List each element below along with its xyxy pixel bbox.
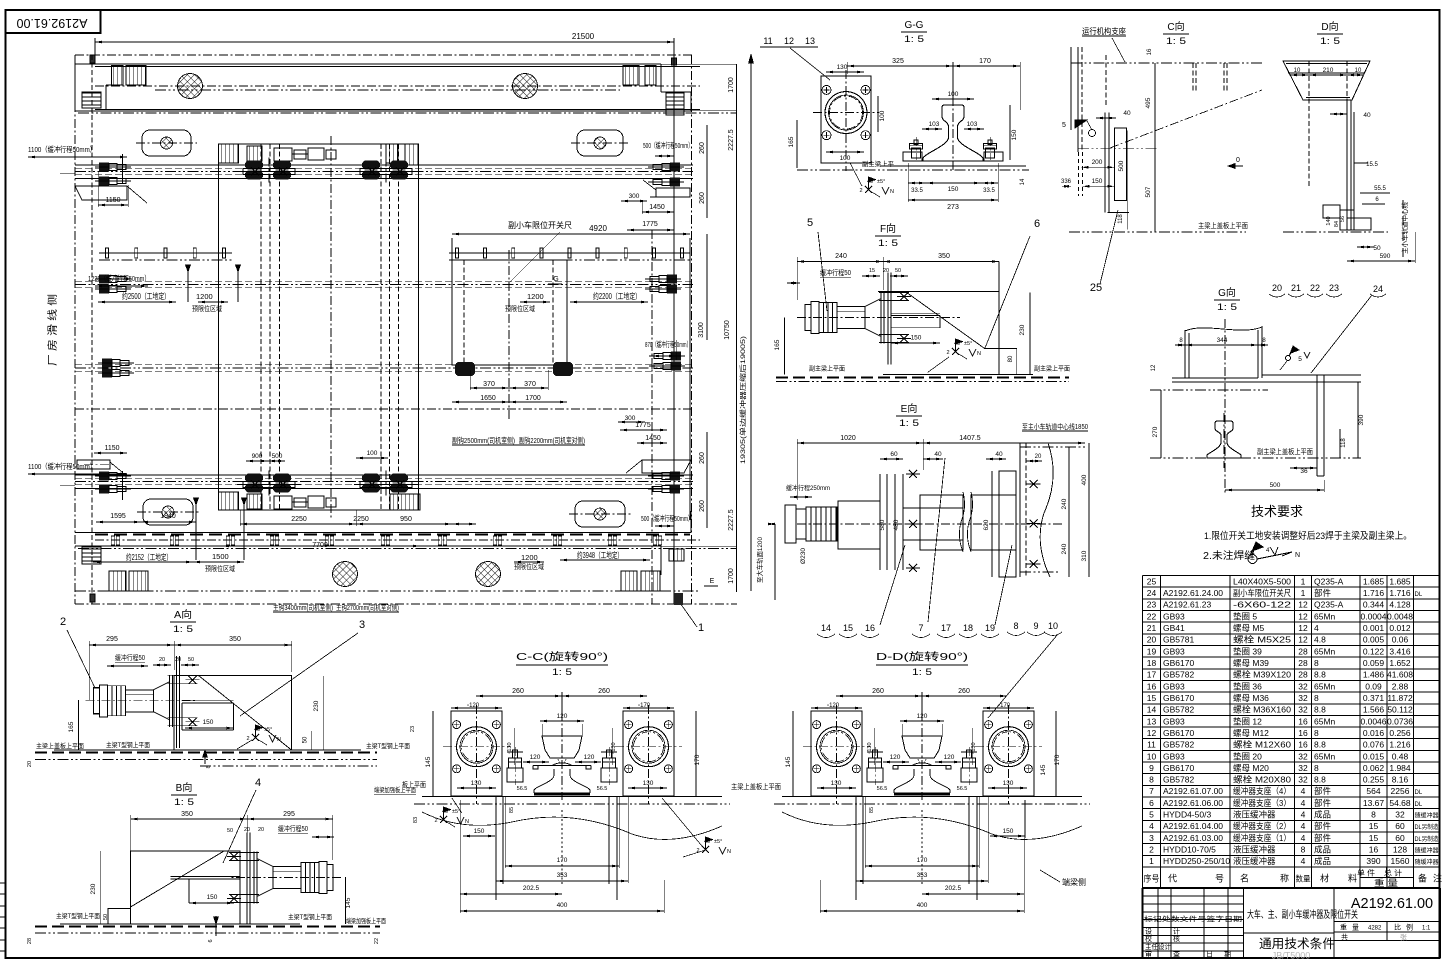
svg-text:A2192.61.00: A2192.61.00 [17, 16, 88, 30]
svg-text:33.5: 33.5 [983, 188, 995, 194]
svg-text:9: 9 [1149, 763, 1154, 773]
svg-text:1100（缓冲行程50mm）: 1100（缓冲行程50mm） [28, 461, 96, 471]
svg-text:60: 60 [890, 451, 898, 458]
svg-text:螺母 M12: 螺母 M12 [1233, 728, 1269, 738]
svg-text:50.112: 50.112 [1387, 705, 1413, 715]
svg-text:65Mn: 65Mn [1314, 716, 1336, 726]
svg-text:螺栓 M20X80: 螺栓 M20X80 [1233, 775, 1291, 785]
svg-text:G: G [553, 276, 558, 283]
svg-text:±5°: ±5° [452, 809, 460, 815]
svg-text:1150: 1150 [104, 445, 119, 452]
svg-text:170: 170 [917, 857, 928, 864]
svg-text:成品: 成品 [1314, 845, 1331, 855]
svg-text:370: 370 [524, 381, 536, 388]
svg-text:缓冲器支座（1）: 缓冲器支座（1） [1233, 833, 1291, 843]
svg-text:GB6170: GB6170 [1163, 728, 1194, 738]
svg-text:260: 260 [512, 688, 524, 695]
svg-text:预限位区域: 预限位区域 [192, 304, 222, 313]
svg-text:副钩2200mm(司机室对侧): 副钩2200mm(司机室对侧) [519, 435, 585, 445]
svg-text:202.5: 202.5 [523, 885, 540, 892]
svg-text:垫圈 20: 垫圈 20 [1233, 751, 1262, 761]
svg-text:缓冲器支座（2）: 缓冲器支座（2） [1233, 821, 1291, 831]
svg-text:0.059: 0.059 [1363, 658, 1385, 668]
svg-text:螺母 M5: 螺母 M5 [1233, 623, 1264, 633]
svg-text:2227.5: 2227.5 [728, 129, 735, 151]
svg-text:1: 1 [1301, 588, 1306, 598]
svg-text:100: 100 [840, 155, 851, 162]
svg-text:128: 128 [1393, 845, 1407, 855]
svg-text:273: 273 [947, 204, 959, 211]
svg-text:0.371: 0.371 [1363, 693, 1385, 703]
svg-text:18: 18 [963, 623, 973, 633]
svg-text:170: 170 [979, 58, 991, 65]
svg-text:8.8: 8.8 [1314, 740, 1326, 750]
svg-text:20: 20 [159, 657, 165, 663]
svg-text:1200: 1200 [196, 292, 213, 301]
svg-text:L40X40X5-500: L40X40X5-500 [1233, 576, 1291, 586]
svg-text:预限位区域: 预限位区域 [514, 562, 544, 571]
svg-text:12: 12 [784, 36, 794, 46]
svg-text:20: 20 [175, 657, 181, 663]
svg-text:150: 150 [207, 894, 218, 901]
svg-text:G-G: G-G [905, 20, 924, 31]
svg-text:17: 17 [941, 623, 951, 633]
svg-text:0.0048: 0.0048 [1387, 611, 1413, 621]
svg-text:500（缓冲行程50mm）: 500（缓冲行程50mm） [643, 140, 693, 150]
svg-text:预限位区域: 预限位区域 [205, 564, 235, 573]
svg-text:40: 40 [995, 451, 1003, 458]
svg-text:50: 50 [895, 268, 901, 274]
svg-text:主梁上盖板上平面: 主梁上盖板上平面 [731, 782, 781, 791]
svg-text:1: 5: 1: 5 [552, 667, 572, 677]
svg-text:353: 353 [917, 872, 928, 879]
svg-text:查: 查 [1173, 950, 1180, 959]
svg-text:主梁上盖板上平面: 主梁上盖板上平面 [36, 741, 84, 750]
svg-text:N: N [277, 737, 281, 743]
svg-text:118: 118 [1341, 438, 1347, 448]
svg-text:0.06: 0.06 [1392, 635, 1409, 645]
svg-text:32: 32 [1298, 681, 1308, 691]
svg-text:145: 145 [785, 756, 792, 767]
svg-text:量: 量 [1352, 924, 1359, 932]
svg-text:0.09: 0.09 [1365, 681, 1382, 691]
svg-text:80: 80 [1008, 355, 1014, 362]
svg-text:11: 11 [1147, 740, 1156, 750]
svg-text:DL: DL [1415, 802, 1423, 808]
svg-text:5: 5 [807, 217, 813, 229]
svg-text:7: 7 [918, 623, 923, 633]
svg-text:A2192.61.00: A2192.61.00 [1351, 896, 1433, 912]
svg-text:螺栓 M36X160: 螺栓 M36X160 [1233, 705, 1291, 715]
svg-text:部件: 部件 [1314, 833, 1332, 843]
svg-text:主小车轨道中心线: 主小车轨道中心线 [1400, 202, 1409, 255]
svg-text:200: 200 [1092, 159, 1103, 166]
svg-text:6: 6 [1149, 798, 1154, 808]
svg-text:A2192.61.03.00: A2192.61.03.00 [1163, 833, 1223, 843]
svg-text:16: 16 [865, 623, 875, 633]
svg-text:2: 2 [434, 818, 437, 824]
svg-text:85: 85 [869, 807, 875, 813]
svg-text:260: 260 [699, 452, 706, 464]
svg-text:5: 5 [1298, 356, 1302, 363]
svg-text:32: 32 [1298, 693, 1308, 703]
svg-text:-6X60-122: -6X60-122 [1233, 600, 1291, 610]
svg-text:1700: 1700 [728, 77, 735, 93]
svg-text:8: 8 [1314, 763, 1319, 773]
svg-text:技术要求: 技术要求 [1251, 504, 1303, 519]
svg-text:E: E [710, 578, 715, 585]
svg-text:7700: 7700 [312, 542, 328, 549]
svg-text:202.5: 202.5 [945, 885, 962, 892]
svg-text:4: 4 [255, 777, 261, 789]
svg-text:日: 日 [1206, 951, 1213, 959]
svg-text:54.68: 54.68 [1389, 798, 1411, 808]
svg-text:325: 325 [892, 58, 904, 65]
svg-text:HYDD10-70/5: HYDD10-70/5 [1163, 845, 1216, 855]
svg-text:副小车限位开关尺: 副小车限位开关尺 [1233, 588, 1291, 598]
svg-text:名: 名 [1240, 873, 1249, 884]
svg-text:590: 590 [1380, 253, 1391, 260]
svg-text:50: 50 [227, 828, 233, 834]
svg-text:0: 0 [1236, 157, 1240, 164]
svg-text:8: 8 [1314, 658, 1319, 668]
svg-text:8: 8 [1371, 810, 1376, 820]
svg-text:500: 500 [272, 453, 283, 460]
svg-text:1.限位开关工地安装调整好后23焊于主梁及副主梁上。: 1.限位开关工地安装调整好后23焊于主梁及副主梁上。 [1204, 530, 1412, 542]
svg-text:副钩2500mm(司机室侧): 副钩2500mm(司机室侧) [452, 435, 515, 445]
svg-text:6: 6 [1034, 218, 1040, 230]
svg-text:预限位区域: 预限位区域 [505, 304, 535, 313]
svg-text:260: 260 [872, 688, 884, 695]
svg-text:56.5: 56.5 [877, 786, 888, 792]
svg-text:240: 240 [835, 253, 847, 260]
svg-text:310: 310 [1081, 550, 1088, 561]
svg-text:13.67: 13.67 [1363, 798, 1385, 808]
svg-text:材: 材 [1320, 873, 1329, 884]
svg-text:8.8: 8.8 [1314, 670, 1326, 680]
svg-text:564: 564 [1366, 786, 1380, 796]
svg-text:DL另制造: DL另制造 [1415, 835, 1439, 843]
svg-text:16: 16 [1147, 681, 1157, 691]
svg-text:D-D(旋转90°): D-D(旋转90°) [876, 650, 968, 663]
svg-text:单 件: 单 件 [1357, 868, 1376, 878]
svg-text:8: 8 [1149, 775, 1154, 785]
svg-text:1.486: 1.486 [1363, 670, 1385, 680]
svg-text:C向: C向 [1167, 20, 1184, 33]
svg-text:成品: 成品 [1314, 856, 1331, 866]
svg-text:9: 9 [1033, 621, 1038, 631]
svg-text:6: 6 [208, 939, 214, 942]
svg-text:20: 20 [258, 827, 264, 833]
svg-text:1225（缓冲行程50mm）: 1225（缓冲行程50mm） [88, 273, 150, 283]
svg-text:1: 5: 1: 5 [174, 797, 194, 807]
svg-text:DL: DL [1415, 592, 1423, 598]
svg-text:约3948（工地定）: 约3948（工地定） [577, 550, 623, 560]
svg-text:40: 40 [1363, 112, 1371, 119]
svg-text:1150: 1150 [105, 197, 120, 204]
svg-text:400: 400 [917, 902, 928, 909]
svg-text:18: 18 [1147, 658, 1157, 668]
svg-text:16: 16 [1369, 845, 1379, 855]
svg-text:83: 83 [413, 817, 419, 823]
svg-text:19: 19 [1147, 646, 1157, 656]
svg-text:500（缓冲行程50mm）: 500（缓冲行程50mm） [641, 513, 693, 523]
svg-text:270: 270 [1152, 426, 1159, 437]
svg-text:2250: 2250 [291, 516, 307, 523]
svg-text:A2192.61.04.00: A2192.61.04.00 [1163, 821, 1223, 831]
svg-text:56: 56 [1340, 216, 1346, 222]
svg-text:备: 备 [1418, 873, 1427, 884]
svg-text:重: 重 [1340, 924, 1347, 932]
svg-text:50: 50 [188, 657, 194, 663]
svg-text:1100（缓冲行程50mm）: 1100（缓冲行程50mm） [28, 144, 96, 154]
svg-text:15: 15 [1147, 693, 1157, 703]
svg-text:2: 2 [946, 350, 949, 356]
svg-text:约2500（工地定）: 约2500（工地定） [122, 291, 170, 301]
svg-text:8.8: 8.8 [1314, 705, 1326, 715]
svg-text:2: 2 [1149, 845, 1154, 855]
svg-text:约2152（工地定）: 约2152（工地定） [126, 552, 172, 562]
svg-text:GB5782: GB5782 [1163, 670, 1194, 680]
svg-text:主梁上盖板上平面: 主梁上盖板上平面 [1198, 221, 1248, 230]
svg-text:11: 11 [763, 36, 772, 46]
svg-text:12: 12 [1298, 623, 1308, 633]
svg-text:成品: 成品 [1314, 810, 1331, 820]
svg-text:1.216: 1.216 [1389, 740, 1411, 750]
svg-text:3: 3 [1149, 833, 1154, 843]
svg-text:主梁T型钢上平面: 主梁T型钢上平面 [56, 911, 100, 920]
svg-text:4282: 4282 [1368, 926, 1382, 932]
svg-text:260: 260 [699, 192, 706, 204]
svg-text:17: 17 [1147, 670, 1157, 680]
svg-text:870（缓冲行程50mm）: 870（缓冲行程50mm） [645, 339, 691, 349]
svg-text:±5°: ±5° [877, 179, 885, 185]
svg-text:230: 230 [90, 883, 97, 894]
svg-text:N: N [727, 849, 731, 855]
svg-text:液压缓冲器: 液压缓冲器 [1233, 845, 1276, 855]
svg-text:103: 103 [929, 121, 940, 128]
svg-text:端梁加强板上平面: 端梁加强板上平面 [346, 916, 386, 925]
svg-text:3: 3 [359, 619, 365, 631]
svg-text:145: 145 [1040, 764, 1047, 775]
svg-text:GB6170: GB6170 [1163, 763, 1194, 773]
svg-text:165: 165 [788, 136, 795, 147]
svg-text:2: 2 [696, 848, 699, 854]
svg-text:20: 20 [244, 827, 250, 833]
svg-text:Q235-A: Q235-A [1314, 600, 1344, 610]
svg-text:缓冲器支座（3）: 缓冲器支座（3） [1233, 798, 1291, 808]
svg-text:1.566: 1.566 [1363, 705, 1385, 715]
svg-text:主梁T型钢上平面: 主梁T型钢上平面 [106, 740, 150, 749]
svg-text:0.122: 0.122 [1363, 646, 1385, 656]
svg-text:Ø230: Ø230 [800, 548, 807, 564]
svg-text:56.5: 56.5 [597, 786, 608, 792]
svg-text:20: 20 [1272, 283, 1282, 293]
svg-text:例: 例 [1406, 923, 1413, 932]
svg-text:22: 22 [1147, 611, 1157, 621]
svg-text:353: 353 [557, 872, 568, 879]
svg-text:垫圈 5: 垫圈 5 [1233, 611, 1257, 621]
svg-text:HYDD4-50/3: HYDD4-50/3 [1163, 810, 1211, 820]
svg-text:1700: 1700 [525, 395, 541, 402]
svg-text:重 量: 重 量 [1374, 878, 1399, 888]
svg-text:1940: 1940 [160, 513, 176, 520]
svg-text:28: 28 [1298, 658, 1308, 668]
svg-text:比: 比 [1394, 923, 1401, 932]
svg-text:1775: 1775 [635, 422, 651, 429]
svg-text:螺母 M36: 螺母 M36 [1233, 693, 1269, 703]
svg-text:260: 260 [699, 142, 706, 154]
svg-text:缓冲行程50: 缓冲行程50 [278, 824, 308, 833]
svg-text:24: 24 [1373, 284, 1383, 294]
svg-text:40: 40 [1123, 110, 1131, 117]
svg-text:校: 校 [1145, 934, 1152, 943]
svg-text:12: 12 [1147, 728, 1157, 738]
svg-text:主梁T型钢上平面: 主梁T型钢上平面 [366, 741, 410, 750]
svg-text:4: 4 [1314, 623, 1319, 633]
svg-text:230: 230 [313, 700, 320, 711]
svg-text:1.984: 1.984 [1389, 763, 1411, 773]
svg-text:1450: 1450 [649, 204, 665, 211]
svg-text:核: 核 [1173, 934, 1180, 943]
svg-text:390: 390 [1358, 414, 1365, 425]
svg-text:1200: 1200 [521, 553, 538, 562]
svg-text:60: 60 [1395, 833, 1405, 843]
svg-text:至主小车轨道中心线1850: 至主小车轨道中心线1850 [1022, 422, 1088, 431]
svg-text:14: 14 [1147, 705, 1157, 715]
svg-text:495: 495 [1145, 97, 1152, 108]
svg-text:0.0046: 0.0046 [1361, 716, 1387, 726]
svg-text:1020: 1020 [840, 435, 856, 442]
svg-text:GB93: GB93 [1163, 681, 1185, 691]
svg-text:19305(单边缓冲器压缩后19005): 19305(单边缓冲器压缩后19005) [738, 336, 747, 464]
svg-text:150: 150 [203, 719, 214, 726]
svg-text:32: 32 [1298, 763, 1308, 773]
svg-text:主任设计: 主任设计 [1145, 942, 1171, 951]
svg-text:13: 13 [805, 36, 815, 46]
svg-text:垫圈 36: 垫圈 36 [1233, 681, 1262, 691]
svg-text:1: 5: 1: 5 [1320, 36, 1340, 46]
svg-text:260: 260 [699, 500, 706, 512]
svg-text:称: 称 [1280, 873, 1289, 884]
svg-text:A向: A向 [174, 608, 192, 621]
svg-text:150: 150 [1011, 129, 1018, 140]
svg-text:0.076: 0.076 [1363, 740, 1385, 750]
svg-text:2: 2 [60, 616, 66, 628]
svg-text:32: 32 [1298, 775, 1308, 785]
svg-text:通用技术条件: 通用技术条件 [1259, 937, 1335, 951]
svg-text:350: 350 [938, 253, 950, 260]
svg-text:号: 号 [1215, 874, 1224, 884]
svg-text:板上平面: 板上平面 [402, 780, 426, 789]
svg-text:缓冲行程250mm: 缓冲行程250mm [786, 483, 830, 492]
svg-text:缓冲行程50: 缓冲行程50 [115, 653, 145, 662]
svg-text:150: 150 [948, 186, 959, 193]
svg-text:23: 23 [410, 726, 416, 732]
svg-text:21500: 21500 [572, 32, 595, 41]
svg-text:20: 20 [883, 268, 889, 274]
svg-text:15: 15 [869, 268, 875, 274]
svg-text:部件: 部件 [1314, 786, 1332, 796]
svg-text:500: 500 [1118, 160, 1125, 171]
svg-text:1595: 1595 [110, 513, 126, 520]
svg-text:28: 28 [1298, 646, 1308, 656]
svg-text:0.005: 0.005 [1363, 635, 1385, 645]
svg-text:A2192.61.06.00: A2192.61.06.00 [1163, 798, 1223, 808]
svg-text:130: 130 [1003, 780, 1014, 787]
svg-text:15: 15 [1369, 821, 1379, 831]
svg-text:4: 4 [1301, 798, 1306, 808]
svg-text:10: 10 [1048, 621, 1058, 631]
svg-text:370: 370 [483, 381, 495, 388]
svg-text:螺母 M20: 螺母 M20 [1233, 763, 1269, 773]
svg-text:20: 20 [1035, 454, 1042, 460]
svg-text:±5°: ±5° [964, 341, 972, 347]
svg-text:F向: F向 [880, 222, 896, 235]
svg-text:4: 4 [1301, 810, 1306, 820]
svg-text:400: 400 [1081, 474, 1088, 485]
svg-text:副小车限位开关尺: 副小车限位开关尺 [508, 220, 572, 230]
svg-text:21: 21 [1147, 623, 1157, 633]
svg-text:150: 150 [1092, 178, 1103, 185]
svg-text:100: 100 [948, 91, 959, 98]
svg-text:1: 5: 1: 5 [912, 667, 932, 677]
svg-text:507: 507 [1145, 186, 1152, 197]
svg-text:2250: 2250 [353, 516, 369, 523]
svg-text:150: 150 [1003, 828, 1014, 835]
svg-text:C-C(旋转90°): C-C(旋转90°) [516, 650, 608, 663]
svg-text:32: 32 [1395, 810, 1405, 820]
svg-text:390: 390 [1366, 856, 1380, 866]
svg-text:165: 165 [68, 721, 75, 732]
svg-text:N: N [890, 189, 894, 195]
svg-text:液压缓冲器: 液压缓冲器 [1233, 810, 1276, 820]
svg-text:240: 240 [1061, 543, 1068, 554]
svg-text:21: 21 [1291, 283, 1301, 293]
svg-text:240: 240 [1061, 498, 1068, 509]
svg-text:GB93: GB93 [1163, 646, 1185, 656]
svg-text:16: 16 [1147, 48, 1153, 55]
svg-text:50: 50 [303, 736, 309, 743]
svg-text:GB41: GB41 [1163, 623, 1185, 633]
svg-text:1.652: 1.652 [1389, 658, 1411, 668]
svg-text:55.5: 55.5 [1374, 186, 1386, 192]
svg-text:10: 10 [1294, 68, 1301, 74]
svg-text:8: 8 [1013, 621, 1018, 631]
svg-text:13: 13 [1147, 716, 1157, 726]
svg-text:GB5782: GB5782 [1163, 705, 1194, 715]
svg-text:230: 230 [1019, 324, 1026, 335]
svg-text:1.685: 1.685 [1389, 576, 1411, 586]
svg-text:10: 10 [1147, 751, 1157, 761]
svg-text:145: 145 [425, 756, 432, 767]
svg-text:4: 4 [1301, 833, 1306, 843]
svg-text:2.88: 2.88 [1392, 681, 1409, 691]
svg-text:N: N [977, 351, 981, 357]
svg-text:审: 审 [1145, 950, 1152, 959]
svg-text:85: 85 [509, 807, 515, 813]
svg-text:Q235-A: Q235-A [1314, 576, 1344, 586]
svg-text:10750: 10750 [724, 320, 731, 340]
svg-text:随缓冲器: 随缓冲器 [1415, 812, 1439, 820]
svg-text:41.608: 41.608 [1387, 670, 1413, 680]
svg-text:5: 5 [1149, 810, 1154, 820]
svg-text:260: 260 [958, 688, 970, 695]
svg-text:336: 336 [1061, 179, 1072, 185]
svg-text:1: 5: 1: 5 [173, 624, 193, 634]
svg-text:8: 8 [1314, 693, 1319, 703]
svg-text:至大车轨面1200: 至大车轨面1200 [755, 537, 764, 583]
